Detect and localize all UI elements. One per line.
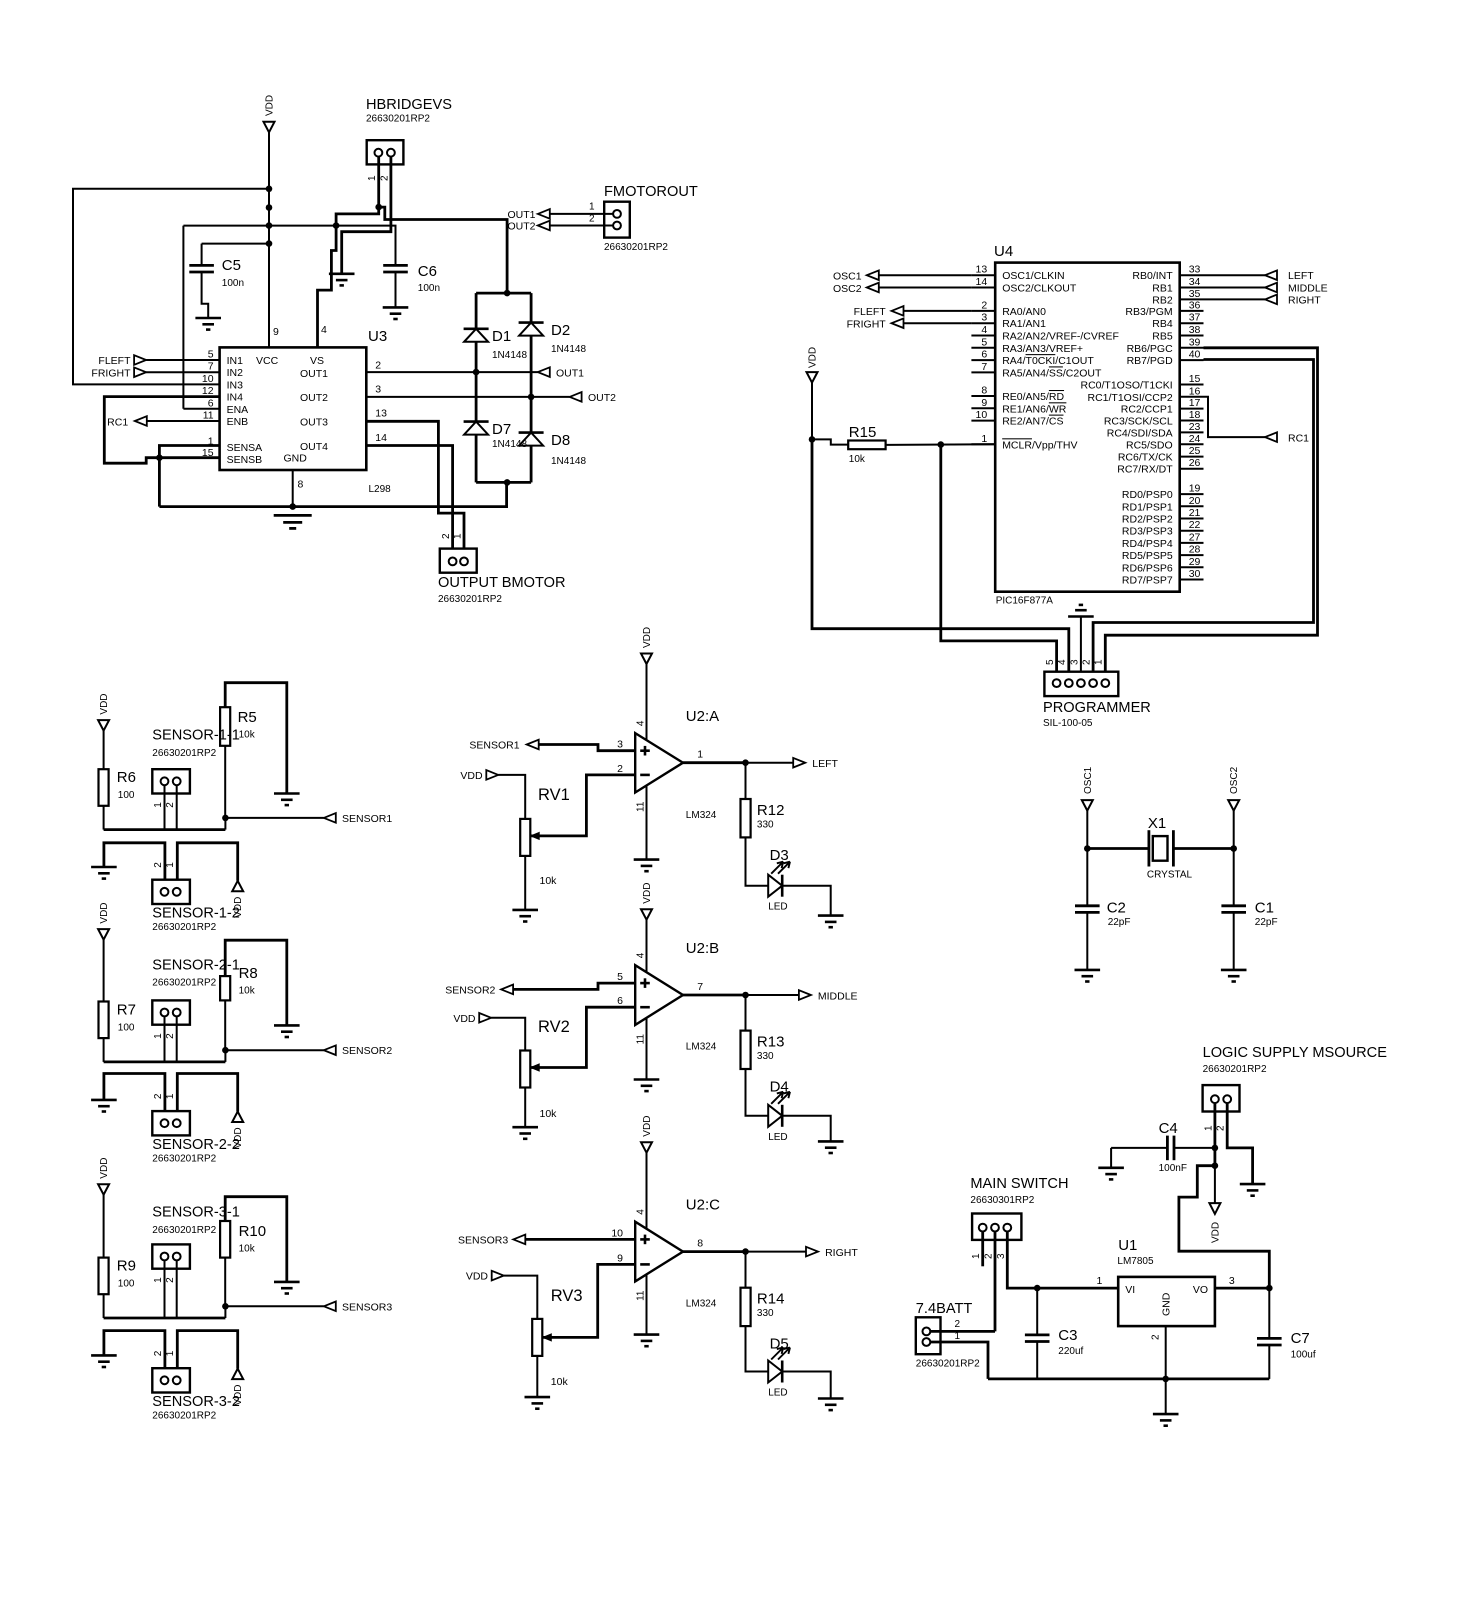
svg-text:5: 5 (208, 349, 214, 361)
svg-text:13: 13 (375, 408, 387, 420)
svg-text:330: 330 (757, 1308, 774, 1319)
svg-text:RC3/SCK/SCL: RC3/SCK/SCL (1104, 416, 1173, 428)
svg-text:LM324: LM324 (686, 1299, 717, 1310)
svg-text:LM324: LM324 (686, 1042, 717, 1053)
svg-text:LOGIC SUPPLY MSOURCE: LOGIC SUPPLY MSOURCE (1203, 1045, 1388, 1061)
svg-text:FRIGHT: FRIGHT (91, 367, 131, 379)
svg-text:C2: C2 (1107, 900, 1126, 917)
svg-text:RD0/PSP0: RD0/PSP0 (1122, 489, 1173, 501)
svg-text:8: 8 (697, 1238, 703, 1250)
svg-text:16: 16 (1189, 385, 1201, 397)
svg-text:10k: 10k (540, 875, 558, 887)
svg-text:9: 9 (273, 326, 279, 338)
svg-text:6: 6 (208, 397, 214, 409)
svg-text:26630201RP2: 26630201RP2 (1203, 1064, 1267, 1075)
svg-text:OSC1: OSC1 (1083, 766, 1094, 794)
svg-text:40: 40 (1189, 349, 1201, 361)
svg-text:1: 1 (165, 1350, 176, 1356)
svg-text:RA5/AN4/SS/C2OUT: RA5/AN4/SS/C2OUT (1002, 367, 1102, 379)
svg-text:1: 1 (697, 749, 703, 761)
svg-text:RB1: RB1 (1152, 283, 1173, 295)
svg-text:X1: X1 (1148, 815, 1166, 832)
svg-text:100n: 100n (222, 278, 244, 289)
svg-text:VCC: VCC (256, 355, 279, 367)
svg-text:15: 15 (1189, 373, 1201, 385)
svg-text:26630201RP2: 26630201RP2 (438, 594, 502, 605)
svg-text:IN2: IN2 (227, 367, 244, 379)
svg-text:OSC1/CLKIN: OSC1/CLKIN (1002, 270, 1064, 282)
svg-text:1: 1 (589, 202, 595, 213)
svg-text:2: 2 (153, 1350, 164, 1356)
svg-text:FLEFT: FLEFT (854, 306, 887, 318)
svg-text:3: 3 (1229, 1275, 1235, 1287)
svg-text:3: 3 (996, 1253, 1007, 1259)
svg-text:MCLR/Vpp/THV: MCLR/Vpp/THV (1002, 439, 1077, 451)
svg-text:VDD: VDD (460, 770, 483, 782)
svg-text:RC1/T1OSI/CCP2: RC1/T1OSI/CCP2 (1087, 392, 1172, 404)
svg-text:RD2/PSP2: RD2/PSP2 (1122, 514, 1173, 526)
svg-text:C6: C6 (418, 263, 437, 280)
svg-text:R6: R6 (117, 769, 136, 786)
svg-text:VS: VS (310, 355, 324, 367)
svg-text:OUT3: OUT3 (300, 417, 328, 429)
svg-text:26630201RP2: 26630201RP2 (152, 922, 216, 933)
svg-text:1N4148: 1N4148 (551, 456, 586, 467)
svg-text:RA3/AN3/VREF+: RA3/AN3/VREF+ (1002, 343, 1083, 355)
svg-text:4: 4 (636, 720, 647, 726)
svg-text:26630201RP2: 26630201RP2 (152, 978, 216, 989)
svg-text:SENSOR3: SENSOR3 (458, 1234, 508, 1246)
svg-text:OSC2: OSC2 (1229, 766, 1240, 794)
svg-text:RV1: RV1 (538, 786, 570, 804)
svg-text:L298: L298 (369, 484, 392, 495)
svg-text:LM7805: LM7805 (1117, 1256, 1154, 1267)
svg-text:RA4/T0CKI/C1OUT: RA4/T0CKI/C1OUT (1002, 355, 1094, 367)
svg-text:R12: R12 (757, 802, 785, 819)
svg-text:2: 2 (981, 299, 987, 311)
svg-text:SIL-100-05: SIL-100-05 (1043, 718, 1093, 729)
svg-text:OUT2: OUT2 (588, 392, 616, 404)
svg-text:14: 14 (375, 432, 387, 444)
svg-text:1N4148: 1N4148 (492, 439, 527, 450)
svg-text:100nF: 100nF (1159, 1163, 1187, 1174)
svg-text:RV2: RV2 (538, 1018, 570, 1036)
svg-text:26630201RP2: 26630201RP2 (604, 242, 668, 253)
svg-text:R10: R10 (239, 1223, 267, 1240)
svg-text:2: 2 (153, 862, 164, 868)
svg-text:RIGHT: RIGHT (1288, 294, 1321, 306)
svg-text:330: 330 (757, 1051, 774, 1062)
svg-text:LEFT: LEFT (812, 758, 838, 770)
svg-text:1: 1 (971, 1253, 982, 1259)
svg-text:2: 2 (165, 802, 176, 808)
svg-text:1: 1 (153, 1033, 164, 1039)
svg-text:RC1: RC1 (107, 417, 128, 429)
svg-text:SENSOR3: SENSOR3 (342, 1301, 392, 1313)
svg-text:RD5/PSP5: RD5/PSP5 (1122, 550, 1173, 562)
svg-text:RA1/AN1: RA1/AN1 (1002, 318, 1046, 330)
svg-text:RB5: RB5 (1152, 331, 1173, 343)
svg-text:3: 3 (375, 384, 381, 396)
svg-text:39: 39 (1189, 336, 1201, 348)
svg-text:OUTPUT BMOTOR: OUTPUT BMOTOR (438, 575, 566, 591)
svg-text:100n: 100n (418, 283, 440, 294)
svg-text:2: 2 (165, 1033, 176, 1039)
svg-text:2: 2 (165, 1277, 176, 1283)
svg-text:OSC2: OSC2 (833, 283, 862, 295)
svg-text:37: 37 (1189, 312, 1201, 324)
svg-text:26630201RP2: 26630201RP2 (366, 114, 430, 125)
svg-text:RC7/RX/DT: RC7/RX/DT (1117, 464, 1173, 476)
svg-text:OSC1: OSC1 (833, 271, 862, 283)
svg-text:RE0/AN5/RD: RE0/AN5/RD (1002, 391, 1064, 403)
svg-text:D7: D7 (492, 421, 511, 438)
svg-text:26630301RP2: 26630301RP2 (970, 1195, 1034, 1206)
svg-text:IN3: IN3 (227, 379, 244, 391)
svg-text:17: 17 (1189, 397, 1201, 409)
svg-text:VDD: VDD (642, 627, 653, 648)
svg-text:RC1: RC1 (1288, 432, 1309, 444)
svg-text:10k: 10k (551, 1376, 569, 1388)
svg-text:1: 1 (1094, 659, 1105, 665)
svg-text:RB4: RB4 (1152, 318, 1173, 330)
svg-text:330: 330 (757, 820, 774, 831)
svg-text:SENSOR-1-2: SENSOR-1-2 (152, 906, 240, 922)
svg-text:GND: GND (1161, 1292, 1173, 1316)
svg-text:100uf: 100uf (1291, 1350, 1316, 1361)
svg-text:2: 2 (379, 175, 390, 181)
svg-text:33: 33 (1189, 264, 1201, 276)
svg-text:R9: R9 (117, 1258, 136, 1275)
svg-text:28: 28 (1189, 544, 1201, 556)
svg-text:SENSOR-2-1: SENSOR-2-1 (152, 958, 240, 974)
svg-text:3: 3 (617, 739, 623, 751)
svg-text:VDD: VDD (642, 883, 653, 904)
svg-text:4: 4 (981, 324, 987, 336)
svg-text:LEFT: LEFT (1288, 270, 1314, 282)
svg-text:19: 19 (1189, 483, 1201, 495)
svg-text:RE2/AN7/CS: RE2/AN7/CS (1002, 416, 1063, 428)
svg-text:26630201RP2: 26630201RP2 (916, 1359, 980, 1370)
svg-text:26630201RP2: 26630201RP2 (152, 1225, 216, 1236)
svg-text:U2:C: U2:C (686, 1197, 720, 1214)
svg-text:D2: D2 (551, 322, 570, 339)
svg-text:3: 3 (1069, 659, 1080, 665)
svg-text:10k: 10k (540, 1108, 558, 1120)
svg-text:CRYSTAL: CRYSTAL (1147, 870, 1193, 881)
svg-text:22: 22 (1189, 519, 1201, 531)
svg-text:24: 24 (1189, 433, 1201, 445)
svg-text:1: 1 (1096, 1275, 1102, 1287)
svg-text:RC6/TX/CK: RC6/TX/CK (1118, 452, 1173, 464)
svg-text:R13: R13 (757, 1034, 785, 1051)
svg-text:MAIN SWITCH: MAIN SWITCH (970, 1176, 1068, 1192)
svg-text:10k: 10k (239, 986, 256, 997)
svg-text:1: 1 (165, 1093, 176, 1099)
svg-text:RC2/CCP1: RC2/CCP1 (1121, 404, 1173, 416)
svg-text:VDD: VDD (99, 902, 110, 923)
svg-text:1N4148: 1N4148 (551, 344, 586, 355)
svg-text:11: 11 (203, 410, 214, 422)
svg-text:23: 23 (1189, 421, 1201, 433)
svg-text:RD7/PSP7: RD7/PSP7 (1122, 575, 1173, 587)
svg-text:1: 1 (153, 802, 164, 808)
svg-text:10: 10 (202, 373, 214, 385)
svg-text:3: 3 (981, 312, 987, 324)
svg-text:SENSOR2: SENSOR2 (342, 1045, 392, 1057)
svg-text:4: 4 (1057, 659, 1068, 665)
svg-text:9: 9 (617, 1252, 623, 1264)
svg-text:8: 8 (981, 385, 987, 397)
svg-text:100: 100 (118, 790, 135, 801)
svg-text:U4: U4 (994, 243, 1013, 260)
svg-text:2: 2 (617, 763, 623, 775)
svg-text:SENSOR-2-2: SENSOR-2-2 (152, 1137, 240, 1153)
svg-text:RD1/PSP1: RD1/PSP1 (1122, 501, 1173, 513)
svg-text:RC4/SDI/SDA: RC4/SDI/SDA (1107, 427, 1173, 439)
svg-text:RD6/PSP6: RD6/PSP6 (1122, 562, 1173, 574)
svg-text:OUT2: OUT2 (507, 221, 535, 233)
svg-text:1: 1 (1204, 1125, 1215, 1131)
svg-text:1: 1 (165, 862, 176, 868)
svg-text:1N4148: 1N4148 (492, 350, 527, 361)
svg-text:2: 2 (955, 1319, 961, 1330)
svg-text:VDD: VDD (642, 1116, 653, 1137)
svg-text:OUT4: OUT4 (300, 441, 328, 453)
svg-text:5: 5 (1045, 659, 1056, 665)
svg-text:GND: GND (284, 453, 308, 465)
svg-text:D1: D1 (492, 328, 511, 345)
svg-text:R7: R7 (117, 1002, 136, 1019)
svg-text:SENSOR-3-1: SENSOR-3-1 (152, 1205, 240, 1221)
svg-text:LM324: LM324 (686, 810, 717, 821)
svg-text:D3: D3 (770, 847, 789, 864)
svg-text:VDD: VDD (99, 693, 110, 714)
svg-text:13: 13 (976, 264, 988, 276)
svg-text:34: 34 (1189, 276, 1201, 288)
svg-text:OUT1: OUT1 (556, 368, 584, 380)
svg-text:VDD: VDD (808, 347, 819, 368)
svg-text:R8: R8 (239, 965, 258, 982)
svg-text:11: 11 (636, 1034, 647, 1045)
svg-text:LED: LED (768, 902, 787, 913)
svg-text:21: 21 (1189, 507, 1201, 519)
svg-text:20: 20 (1189, 495, 1201, 507)
svg-text:VDD: VDD (453, 1013, 476, 1025)
svg-text:27: 27 (1189, 531, 1201, 543)
svg-text:U2:B: U2:B (686, 940, 719, 957)
svg-text:ENA: ENA (227, 404, 249, 416)
svg-text:10k: 10k (239, 730, 256, 741)
svg-text:OSC2/CLKOUT: OSC2/CLKOUT (1002, 283, 1077, 295)
svg-text:220uf: 220uf (1058, 1346, 1083, 1357)
svg-text:100: 100 (118, 1023, 135, 1034)
svg-text:5: 5 (981, 336, 987, 348)
svg-text:D5: D5 (770, 1336, 789, 1353)
svg-text:OUT1: OUT1 (300, 368, 328, 380)
svg-text:26630201RP2: 26630201RP2 (152, 1411, 216, 1422)
svg-text:100: 100 (118, 1279, 135, 1290)
svg-text:11: 11 (636, 801, 647, 812)
svg-text:FLEFT: FLEFT (98, 355, 131, 367)
svg-text:C3: C3 (1058, 1327, 1077, 1344)
svg-text:RV3: RV3 (551, 1287, 583, 1305)
svg-text:4: 4 (636, 1209, 647, 1215)
svg-text:LED: LED (768, 1132, 787, 1143)
svg-text:4: 4 (321, 324, 327, 336)
svg-text:6: 6 (617, 995, 623, 1007)
svg-text:2: 2 (441, 533, 452, 539)
svg-text:RE1/AN6/WR: RE1/AN6/WR (1002, 403, 1067, 415)
svg-text:SENSA: SENSA (227, 442, 263, 454)
svg-text:VO: VO (1193, 1284, 1208, 1296)
svg-text:1: 1 (153, 1277, 164, 1283)
svg-text:2: 2 (375, 360, 381, 372)
svg-text:8: 8 (298, 479, 304, 491)
svg-text:2: 2 (984, 1253, 995, 1259)
svg-text:MIDDLE: MIDDLE (1288, 283, 1328, 295)
svg-text:RB0/INT: RB0/INT (1132, 270, 1173, 282)
svg-text:10k: 10k (239, 1244, 256, 1255)
svg-text:SENSOR1: SENSOR1 (469, 740, 519, 752)
svg-text:29: 29 (1189, 556, 1201, 568)
svg-text:30: 30 (1189, 568, 1201, 580)
svg-text:10: 10 (976, 409, 988, 421)
svg-text:C4: C4 (1159, 1120, 1178, 1137)
svg-text:RB2: RB2 (1152, 294, 1173, 306)
svg-text:OUT2: OUT2 (300, 392, 328, 404)
svg-text:HBRIDGEVS: HBRIDGEVS (366, 97, 452, 113)
svg-text:VDD: VDD (265, 95, 276, 116)
svg-text:2: 2 (1082, 659, 1093, 665)
svg-text:VDD: VDD (1210, 1222, 1221, 1243)
svg-text:SENSOR1: SENSOR1 (342, 813, 392, 825)
svg-text:SENSB: SENSB (227, 454, 263, 466)
svg-text:26: 26 (1189, 457, 1201, 469)
svg-text:C1: C1 (1255, 900, 1274, 917)
svg-text:RB7/PGD: RB7/PGD (1127, 355, 1174, 367)
svg-text:SENSOR-3-2: SENSOR-3-2 (152, 1394, 240, 1410)
svg-text:RIGHT: RIGHT (825, 1247, 858, 1259)
svg-text:VDD: VDD (99, 1158, 110, 1179)
svg-text:C7: C7 (1291, 1330, 1310, 1347)
svg-text:RB3/PGM: RB3/PGM (1125, 306, 1172, 318)
svg-text:RD3/PSP3: RD3/PSP3 (1122, 526, 1173, 538)
svg-text:22pF: 22pF (1255, 917, 1278, 928)
svg-text:7: 7 (208, 361, 214, 373)
svg-text:ENB: ENB (227, 416, 249, 428)
svg-text:11: 11 (636, 1290, 647, 1301)
svg-text:2: 2 (1216, 1125, 1227, 1131)
svg-text:U3: U3 (368, 328, 387, 345)
svg-text:SENSOR2: SENSOR2 (445, 984, 495, 996)
svg-text:9: 9 (981, 397, 987, 409)
svg-text:7: 7 (981, 361, 987, 373)
svg-text:2: 2 (153, 1093, 164, 1099)
svg-text:PROGRAMMER: PROGRAMMER (1043, 700, 1151, 716)
svg-text:OUT1: OUT1 (507, 209, 535, 221)
svg-text:VDD: VDD (466, 1271, 489, 1283)
svg-text:7: 7 (697, 981, 703, 993)
svg-text:RA0/AN0: RA0/AN0 (1002, 306, 1046, 318)
svg-text:6: 6 (981, 349, 987, 361)
svg-text:1: 1 (367, 175, 378, 181)
svg-text:7.4BATT: 7.4BATT (916, 1301, 973, 1317)
svg-text:2: 2 (1151, 1334, 1162, 1340)
svg-text:RA2/AN2/VREF-/CVREF: RA2/AN2/VREF-/CVREF (1002, 331, 1119, 343)
svg-text:U2:A: U2:A (686, 708, 719, 725)
svg-text:10k: 10k (849, 454, 866, 465)
svg-text:PIC16F877A: PIC16F877A (996, 596, 1054, 607)
svg-text:4: 4 (636, 952, 647, 958)
svg-text:FRIGHT: FRIGHT (847, 319, 887, 331)
svg-text:26630201RP2: 26630201RP2 (152, 748, 216, 759)
svg-text:IN4: IN4 (227, 392, 244, 404)
svg-text:1: 1 (453, 533, 464, 539)
svg-text:35: 35 (1189, 288, 1201, 300)
svg-text:18: 18 (1189, 409, 1201, 421)
svg-text:1: 1 (955, 1331, 961, 1342)
svg-text:VI: VI (1125, 1284, 1135, 1296)
svg-text:2: 2 (589, 214, 595, 225)
svg-text:14: 14 (976, 276, 988, 288)
svg-text:36: 36 (1189, 299, 1201, 311)
svg-text:RB6/PGC: RB6/PGC (1127, 343, 1174, 355)
svg-text:5: 5 (617, 971, 623, 983)
svg-text:MIDDLE: MIDDLE (818, 991, 858, 1003)
svg-text:RD4/PSP4: RD4/PSP4 (1122, 538, 1173, 550)
svg-text:1: 1 (981, 433, 987, 445)
svg-text:R15: R15 (849, 424, 877, 441)
svg-text:U1: U1 (1118, 1237, 1137, 1254)
svg-text:10: 10 (611, 1227, 623, 1239)
svg-text:FMOTOROUT: FMOTOROUT (604, 184, 698, 200)
svg-text:LED: LED (768, 1388, 787, 1399)
svg-text:D4: D4 (770, 1079, 789, 1096)
svg-text:D8: D8 (551, 432, 570, 449)
svg-text:SENSOR-1-1: SENSOR-1-1 (152, 728, 240, 744)
svg-text:26630201RP2: 26630201RP2 (152, 1154, 216, 1165)
svg-text:RC0/T1OSO/T1CKI: RC0/T1OSO/T1CKI (1080, 380, 1172, 392)
svg-text:R14: R14 (757, 1291, 785, 1308)
svg-text:R5: R5 (238, 709, 257, 726)
svg-text:C5: C5 (222, 257, 241, 274)
svg-text:38: 38 (1189, 324, 1201, 336)
svg-text:22pF: 22pF (1108, 917, 1131, 928)
svg-text:IN1: IN1 (227, 355, 244, 367)
svg-text:25: 25 (1189, 445, 1201, 457)
svg-text:RC5/SDO: RC5/SDO (1126, 439, 1173, 451)
